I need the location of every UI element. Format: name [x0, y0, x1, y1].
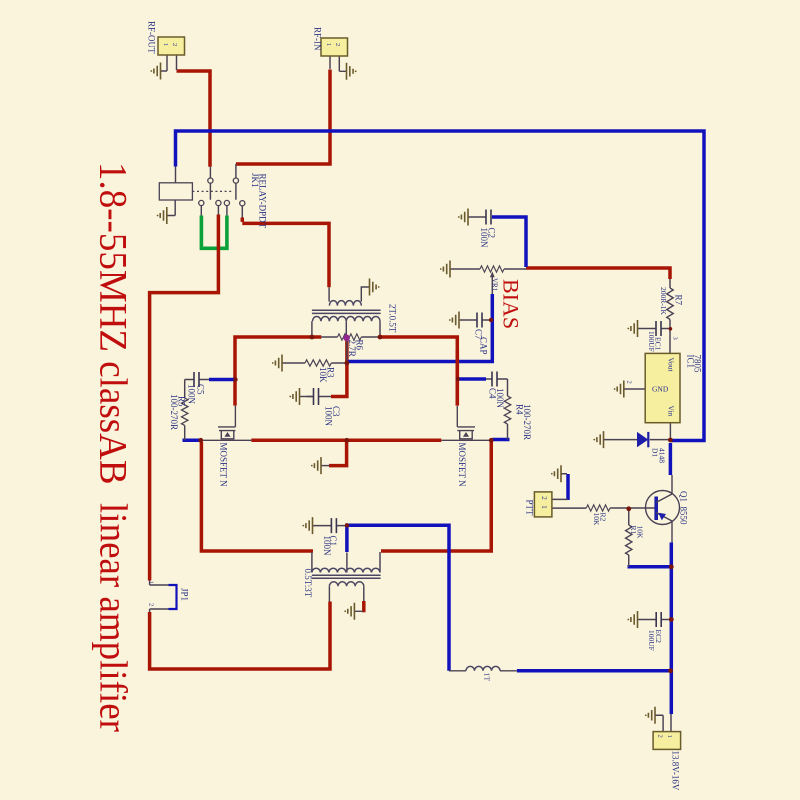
svg-text:MOSFET N: MOSFET N: [457, 443, 467, 488]
svg-text:2: 2: [147, 603, 154, 606]
svg-text:GND: GND: [652, 385, 669, 394]
svg-text:1T: 1T: [483, 673, 492, 682]
svg-text:100N: 100N: [187, 384, 197, 405]
svg-text:PTT: PTT: [525, 500, 535, 517]
svg-text:RELAY-DPDT: RELAY-DPDT: [258, 174, 268, 229]
svg-text:10K: 10K: [318, 367, 328, 383]
svg-text:0.5T:3T: 0.5T:3T: [303, 569, 313, 598]
svg-text:Q1 8550: Q1 8550: [679, 491, 689, 525]
svg-text:100N: 100N: [322, 536, 332, 557]
svg-text:CAP: CAP: [479, 337, 489, 355]
svg-text:2: 2: [171, 43, 178, 46]
svg-text:2: 2: [656, 735, 663, 738]
svg-text:100-270R: 100-270R: [169, 394, 179, 430]
svg-text:7805: 7805: [693, 355, 703, 374]
svg-text:3: 3: [672, 337, 679, 340]
svg-text:1.8--55MHZ classAB linear amp: 1.8--55MHZ classAB linear amplifier: [92, 162, 135, 732]
svg-text:1: 1: [540, 505, 548, 509]
svg-text:Vin: Vin: [667, 406, 676, 417]
svg-text:100UF: 100UF: [647, 331, 656, 352]
svg-text:MOSFET N: MOSFET N: [219, 443, 229, 488]
svg-text:BIAS: BIAS: [499, 279, 524, 329]
svg-text:2: 2: [334, 43, 341, 46]
svg-text:1: 1: [147, 581, 154, 584]
svg-text:10K: 10K: [636, 526, 645, 540]
svg-text:100UF: 100UF: [647, 630, 656, 651]
svg-text:1: 1: [162, 43, 169, 46]
svg-text:2: 2: [625, 381, 632, 384]
svg-text:VR1: VR1: [490, 278, 498, 292]
svg-text:R7: R7: [674, 295, 684, 306]
svg-text:100N: 100N: [324, 406, 334, 427]
svg-text:1: 1: [666, 735, 673, 738]
svg-text:1: 1: [325, 43, 332, 46]
svg-text:RF-OUT: RF-OUT: [147, 21, 157, 54]
svg-text:10K: 10K: [592, 513, 601, 527]
svg-text:100-270R: 100-270R: [522, 404, 532, 440]
svg-text:2: 2: [540, 496, 548, 500]
svg-text:2.7R: 2.7R: [347, 340, 357, 357]
svg-text:JP1: JP1: [180, 588, 190, 601]
svg-text:100N: 100N: [495, 388, 505, 409]
svg-text:Vout: Vout: [667, 358, 676, 373]
svg-text:2T.0.5T: 2T.0.5T: [388, 304, 398, 333]
svg-text:200R-1K: 200R-1K: [659, 287, 668, 316]
svg-text:100N: 100N: [479, 228, 489, 249]
svg-text:13.8V-16V: 13.8V-16V: [671, 751, 681, 791]
svg-text:4148: 4148: [658, 448, 667, 463]
svg-text:RF-IN: RF-IN: [313, 27, 323, 51]
